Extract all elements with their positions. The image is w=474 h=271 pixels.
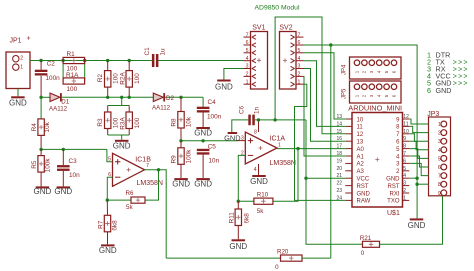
- wire JP1 to ground: [17, 89, 19, 97]
- svg-text:GND: GND: [113, 142, 131, 151]
- svg-text:RST: RST: [357, 184, 369, 190]
- ground under C3: [57, 186, 71, 188]
- wire IC1A output to arduino A0: [277, 148, 345, 150]
- svg-text:15: 15: [336, 129, 342, 135]
- svg-text:A2: A2: [357, 162, 365, 168]
- svg-text:D1: D1: [61, 98, 69, 105]
- svg-text:13: 13: [336, 114, 342, 120]
- junction R1 right: [83, 59, 86, 62]
- resistor R4: [38, 119, 44, 135]
- connector JP1: [6, 52, 30, 89]
- svg-text:9: 9: [438, 191, 441, 197]
- svg-text:U$1: U$1: [387, 210, 400, 217]
- svg-text:>>>: >>>: [453, 59, 469, 66]
- svg-text:C5: C5: [208, 143, 217, 150]
- svg-text:10k: 10k: [186, 116, 193, 127]
- svg-text:6k8: 6k8: [244, 213, 251, 224]
- svg-text:D2: D2: [166, 95, 174, 102]
- svg-text:C2: C2: [47, 61, 56, 68]
- ground under arduino: [410, 218, 424, 220]
- svg-text:100n: 100n: [46, 75, 61, 82]
- connector JP4: [350, 57, 402, 79]
- svg-text:LM358N: LM358N: [270, 160, 296, 167]
- resistor R3: [105, 112, 111, 129]
- svg-text:C6: C6: [239, 105, 246, 114]
- svg-text:R2A: R2A: [120, 72, 127, 85]
- svg-text:AD9850 Modul: AD9850 Modul: [255, 5, 300, 12]
- junction R2 top: [106, 59, 109, 62]
- svg-text:IC1B: IC1B: [135, 157, 151, 164]
- wire main input net: [30, 60, 152, 62]
- svg-text:TXO: TXO: [387, 199, 400, 205]
- wire vplus net: [255, 119, 306, 121]
- svg-text:6: 6: [298, 40, 301, 46]
- wire SV2 pin1 to arduino RAW: [295, 84, 346, 200]
- resistor R10: [254, 198, 273, 204]
- svg-text:5k: 5k: [126, 204, 133, 211]
- svg-text:VCC: VCC: [357, 177, 370, 183]
- wires arduino to JP3: [409, 119, 428, 124]
- svg-text:4: 4: [298, 56, 301, 62]
- resistor R6: [131, 197, 145, 203]
- resistor R8: [178, 112, 184, 129]
- svg-text:GND: GND: [408, 221, 426, 230]
- svg-text:GND: GND: [9, 99, 27, 108]
- svg-text:10n: 10n: [69, 172, 80, 179]
- svg-text:JP5: JP5: [342, 88, 348, 99]
- svg-text:R6: R6: [126, 190, 134, 197]
- wire R10 to output feedback: [273, 149, 298, 202]
- svg-text:12: 12: [403, 114, 409, 120]
- svg-text:20: 20: [336, 166, 342, 172]
- connector SV1: [251, 32, 268, 90]
- svg-text:6: 6: [438, 165, 441, 171]
- wire ground net around arduino module: [331, 45, 417, 218]
- svg-text:R3: R3: [97, 118, 104, 127]
- svg-text:1n: 1n: [254, 106, 261, 114]
- ground under R7: [101, 244, 115, 246]
- junction feedback on IC1A output: [296, 147, 299, 150]
- svg-text:GND: GND: [194, 179, 212, 188]
- wire D1 node down to R4: [40, 97, 42, 119]
- svg-text:R4: R4: [31, 123, 38, 132]
- wire to IC1B noninverting input: [107, 149, 113, 161]
- junction R3 pair top: [120, 96, 123, 99]
- svg-text:2: 2: [246, 72, 249, 78]
- svg-text:1: 1: [438, 122, 441, 128]
- resistor R2: [105, 71, 111, 88]
- svg-text:23: 23: [336, 188, 342, 194]
- svg-text:JP1: JP1: [10, 38, 22, 45]
- svg-text:6k8: 6k8: [111, 220, 118, 231]
- svg-text:A0: A0: [357, 147, 365, 153]
- svg-text:R9: R9: [171, 155, 178, 164]
- svg-text:100: 100: [67, 86, 78, 93]
- svg-text:SV1: SV1: [252, 24, 265, 31]
- svg-text:100: 100: [113, 117, 120, 128]
- junction R1 left: [61, 59, 64, 62]
- wire inverting input to R10: [238, 155, 254, 201]
- junction JP3 pin8: [415, 183, 418, 186]
- svg-text:18: 18: [336, 151, 342, 157]
- wire SV2 pin4 to arduino pin14: [304, 61, 346, 127]
- svg-text:7: 7: [146, 163, 149, 169]
- diode D2: [153, 93, 163, 101]
- wire R3 pair bottom: [108, 134, 130, 136]
- svg-text:RXI: RXI: [389, 191, 399, 197]
- svg-text:3: 3: [246, 64, 249, 70]
- ground under R9: [174, 178, 188, 180]
- svg-text:6: 6: [246, 40, 249, 46]
- svg-text:5: 5: [298, 48, 301, 54]
- svg-text:R1A: R1A: [66, 72, 79, 79]
- svg-text:21: 21: [336, 173, 342, 179]
- svg-text:C1: C1: [144, 47, 151, 56]
- svg-text:5: 5: [246, 48, 249, 54]
- wire IC1B output: [145, 170, 167, 258]
- junction R11 top: [237, 200, 240, 203]
- junction R8 bottom: [179, 139, 182, 142]
- resistor R9: [178, 148, 184, 165]
- junction VCC stub: [304, 177, 307, 180]
- svg-text:11: 11: [403, 121, 408, 127]
- junction R8 top: [179, 96, 182, 99]
- svg-text:1: 1: [20, 64, 23, 70]
- svg-text:R11: R11: [229, 212, 236, 224]
- svg-text:7: 7: [246, 32, 249, 38]
- svg-text:100k: 100k: [45, 158, 52, 173]
- junction R2 bottom: [106, 96, 109, 99]
- svg-text:C3: C3: [69, 158, 78, 165]
- svg-text:JP4: JP4: [342, 64, 348, 75]
- svg-text:100: 100: [134, 73, 141, 84]
- junction R2A bottom: [128, 96, 131, 99]
- svg-text:R7: R7: [97, 220, 104, 229]
- svg-text:100n: 100n: [207, 114, 222, 121]
- svg-text:SV2: SV2: [279, 24, 292, 31]
- resistor R1A: [63, 78, 85, 84]
- resistor R5: [38, 156, 44, 173]
- wire C1 to SV1 pin4: [158, 60, 243, 62]
- svg-text:2: 2: [403, 188, 406, 194]
- wire R1A parallel right: [84, 61, 86, 82]
- junction R5 top: [39, 148, 42, 151]
- ground under C5: [196, 178, 210, 180]
- svg-text:17: 17: [336, 144, 342, 150]
- svg-text:R3A: R3A: [120, 117, 127, 130]
- svg-text:0: 0: [361, 250, 365, 257]
- resistor R7: [104, 215, 110, 232]
- svg-text:>>>: >>>: [453, 67, 469, 74]
- junction R2A top: [128, 59, 131, 62]
- wire SV2 pin5 to arduino pin13: [304, 53, 346, 119]
- wire R21 to JP3 pin9: [380, 196, 443, 245]
- diode D1: [50, 93, 60, 101]
- op-amp IC1A: [245, 132, 277, 164]
- capacitor C1: [152, 54, 155, 67]
- connector SV2: [280, 32, 297, 90]
- svg-text:100: 100: [113, 73, 120, 84]
- svg-text:R5: R5: [31, 160, 38, 169]
- svg-text:7: 7: [403, 151, 406, 157]
- wire arduino GND pin to ground net: [409, 177, 417, 179]
- capacitor C2: [35, 70, 48, 72]
- svg-text:6: 6: [403, 158, 406, 164]
- svg-text:22: 22: [336, 181, 342, 187]
- svg-text:16: 16: [336, 136, 342, 142]
- connector JP5: [350, 81, 402, 103]
- svg-text:8: 8: [254, 129, 257, 135]
- svg-text:10: 10: [403, 129, 409, 135]
- svg-text:8: 8: [438, 182, 441, 188]
- svg-text:R21: R21: [360, 235, 372, 242]
- resistor R20: [281, 255, 303, 261]
- junction vplus at C6 wire: [273, 118, 276, 121]
- connector JP3: [429, 117, 451, 196]
- junction pin 8 on vplus net: [257, 118, 260, 121]
- svg-text:>>>: >>>: [453, 74, 469, 81]
- svg-text:R10: R10: [257, 192, 269, 199]
- ground under JP1: [11, 96, 25, 98]
- svg-text:1: 1: [403, 195, 406, 201]
- svg-text:R1: R1: [67, 51, 76, 58]
- svg-text:19: 19: [336, 158, 342, 164]
- wire bottom output net: [166, 257, 280, 259]
- svg-text:>>>: >>>: [453, 81, 469, 88]
- svg-text:12: 12: [357, 132, 364, 138]
- svg-text:5: 5: [438, 156, 441, 162]
- svg-text:GND: GND: [54, 187, 72, 196]
- svg-text:10k: 10k: [44, 121, 51, 132]
- wire R20 to riser: [302, 257, 331, 259]
- wire SV2 pin2 to arduino pin18: [304, 76, 346, 156]
- svg-text:RAW: RAW: [357, 199, 371, 205]
- wire SV2 pin3 to arduino pin16: [304, 69, 346, 142]
- svg-text:4: 4: [246, 56, 249, 62]
- svg-text:10n: 10n: [209, 157, 220, 164]
- svg-text:5k: 5k: [257, 208, 264, 215]
- wire vplus frame over SV2: [275, 17, 345, 134]
- svg-text:AA112: AA112: [152, 105, 171, 112]
- svg-text:GND: GND: [436, 86, 452, 95]
- ground under C4: [196, 127, 210, 129]
- svg-text:24: 24: [336, 195, 342, 201]
- svg-text:7: 7: [298, 32, 301, 38]
- junction at C2 top: [39, 59, 42, 62]
- ground under R5: [36, 186, 50, 188]
- wire diode net: [41, 96, 50, 98]
- wire C6 left to ground: [232, 120, 249, 132]
- svg-text:6: 6: [427, 86, 431, 95]
- svg-text:GND: GND: [357, 191, 371, 197]
- ground under R11: [232, 239, 246, 241]
- wire R1A parallel left: [62, 61, 64, 82]
- wire JP3 pin8 to ground net: [417, 183, 428, 185]
- wire IC1A power pin 8: [258, 120, 260, 132]
- svg-text:A3: A3: [357, 169, 365, 175]
- svg-text:ARDUINO_MINI: ARDUINO_MINI: [348, 104, 402, 113]
- wire SV2 pin6 to R20: [304, 45, 331, 258]
- junction SV2 pin6 net split: [329, 43, 332, 46]
- svg-text:5: 5: [403, 166, 406, 172]
- junction feedback on output: [157, 168, 160, 171]
- svg-text:RST: RST: [388, 184, 400, 190]
- svg-text:5: 5: [108, 157, 111, 163]
- svg-text:R2: R2: [97, 73, 104, 82]
- svg-text:11: 11: [357, 125, 364, 131]
- svg-text:GND: GND: [34, 187, 52, 196]
- svg-text:2: 2: [20, 56, 23, 62]
- svg-text:100k: 100k: [186, 149, 193, 164]
- ground at C6 and IC1A input: [228, 132, 238, 134]
- svg-text:1: 1: [278, 143, 281, 149]
- wire to R3 pair: [121, 97, 123, 105]
- svg-text:GND: GND: [250, 177, 268, 186]
- junction C2 bottom: [39, 96, 42, 99]
- wire bias net: [41, 148, 107, 150]
- resistor R3A: [126, 112, 132, 129]
- ground under IC1A: [252, 175, 266, 177]
- svg-text:8: 8: [403, 144, 406, 150]
- wire IC1A ground pin 4: [258, 164, 260, 175]
- svg-text:14: 14: [336, 121, 342, 127]
- svg-text:0: 0: [275, 264, 279, 271]
- resistor R2A: [126, 71, 132, 88]
- wire R6 to IC1B output: [145, 170, 159, 200]
- junction R7 top: [106, 198, 109, 201]
- IC U$1 arduino mini: [352, 113, 403, 208]
- wire detector net: [181, 140, 238, 142]
- svg-text:AA112: AA112: [49, 106, 68, 113]
- svg-text:GND: GND: [229, 242, 247, 251]
- resistor R1: [63, 57, 85, 63]
- svg-text:9: 9: [403, 136, 406, 142]
- junction C3 top: [62, 148, 65, 151]
- svg-text:GND: GND: [99, 246, 117, 255]
- wire SV1 pin3 to ground: [224, 69, 244, 80]
- capacitor C6: [248, 115, 251, 126]
- op-amp IC1B: [113, 153, 145, 186]
- svg-text:4: 4: [403, 173, 406, 179]
- svg-text:GND: GND: [172, 179, 190, 188]
- svg-text:3: 3: [403, 181, 406, 187]
- capacitor C4: [197, 107, 210, 109]
- svg-text:1: 1: [298, 79, 301, 85]
- svg-text:4: 4: [438, 148, 441, 154]
- svg-text:2: 2: [438, 131, 441, 137]
- svg-text:JP3: JP3: [427, 111, 439, 118]
- svg-text:GND: GND: [215, 83, 233, 92]
- junction arduino GND: [415, 177, 418, 180]
- svg-text:13: 13: [357, 140, 364, 146]
- junction C5 top: [201, 139, 204, 142]
- wire IC1B inverting input: [107, 177, 131, 200]
- svg-text:1: 1: [246, 79, 249, 85]
- svg-text:GND: GND: [194, 128, 212, 137]
- ground at SV1 pin3: [217, 80, 231, 82]
- wire noninverting input net: [238, 140, 246, 142]
- svg-text:A1: A1: [357, 154, 365, 160]
- capacitor C5: [197, 149, 210, 151]
- svg-text:IC1A: IC1A: [270, 136, 286, 143]
- wire vplus down to VCC and R21: [306, 120, 363, 244]
- svg-text:7: 7: [438, 174, 441, 180]
- svg-text:4: 4: [254, 167, 257, 173]
- svg-text:3: 3: [438, 139, 441, 145]
- svg-text:100: 100: [134, 117, 141, 128]
- resistor R11: [235, 209, 241, 226]
- svg-text:R20: R20: [277, 248, 289, 255]
- wire D2 to C4: [202, 97, 204, 106]
- svg-text:10: 10: [357, 117, 364, 123]
- svg-text:1u: 1u: [160, 48, 167, 56]
- svg-text:R8: R8: [171, 118, 178, 127]
- svg-text:3: 3: [298, 64, 301, 70]
- svg-text:GND: GND: [386, 177, 400, 183]
- resistor R21: [363, 241, 380, 247]
- wire VCC stub to arduino: [306, 177, 345, 179]
- ground under R3 pair: [115, 140, 129, 142]
- capacitor C3: [57, 165, 70, 167]
- svg-text:C4: C4: [208, 99, 217, 106]
- svg-text:2: 2: [298, 72, 301, 78]
